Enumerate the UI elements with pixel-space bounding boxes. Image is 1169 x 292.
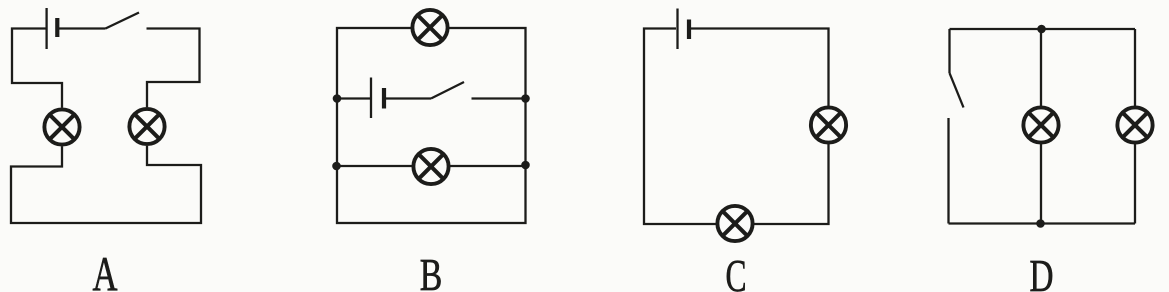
junction node dot D top — [1037, 25, 1046, 34]
lamp L5 (circuit C right edge) — [811, 107, 846, 142]
svg-text:A: A — [93, 248, 118, 292]
battery G3 (circuit C) short negative plate — [687, 20, 691, 40]
wire D: left edge lower segment below switch — [947, 118, 949, 224]
battery G1 (circuit A) long positive plate — [45, 8, 47, 49]
wire B: lower lamp branch — [337, 165, 526, 167]
label B — [420, 250, 443, 292]
junction node dot B middle-right — [521, 94, 530, 103]
wire B: switch contact to right edge — [472, 97, 526, 99]
svg-text:B: B — [420, 250, 443, 292]
wire A: switch contact to top-right corner down to lamp L2 top — [147, 29, 200, 108]
wire B: battery to switch pivot — [386, 97, 431, 99]
wire D: middle branch vertical — [1040, 29, 1042, 224]
wire B: outer rectangle loop — [337, 28, 526, 223]
wire A: battery to switch pivot — [59, 27, 106, 29]
lamp L7 (circuit D middle branch) — [1023, 107, 1058, 142]
battery G2 (circuit B) short negative plate — [382, 88, 386, 109]
lamp L8 (circuit D right edge) — [1117, 107, 1152, 142]
switch S3 (circuit D, open) blade — [950, 73, 964, 108]
wire A: bottom loop connecting lamp L1 bottom to lamp L2 bottom — [11, 146, 201, 223]
wire B: middle branch battery side — [337, 97, 370, 99]
svg-text:D: D — [1030, 251, 1054, 292]
lamp L6 (circuit C bottom edge) — [717, 206, 752, 241]
wire A: left loop from battery negative terminal to lamp L1 top — [12, 29, 62, 108]
label A — [93, 248, 118, 292]
label C — [726, 250, 747, 292]
wire D: right edge — [1134, 29, 1136, 224]
battery G2 (circuit B) long positive plate — [370, 78, 372, 119]
wire D: left edge upper segment above switch — [948, 29, 950, 73]
battery G3 (circuit C) long positive plate — [676, 9, 678, 50]
junction node dot B middle-left — [333, 94, 342, 103]
wire C: loop left side, bottom and right side — [644, 29, 829, 225]
junction node dot B lower-left — [332, 162, 341, 171]
junction node dot B lower-right — [521, 161, 530, 170]
switch S2 (circuit B, open) blade — [431, 82, 464, 99]
lamp L4 (circuit B lower branch) — [413, 149, 448, 184]
switch S1 (circuit A, open) blade — [106, 13, 140, 29]
wire D: top edge — [950, 28, 1136, 30]
svg-text:C: C — [726, 250, 747, 292]
battery G1 (circuit A) short negative plate — [55, 18, 59, 37]
lamp L1 (circuit A left) — [44, 109, 79, 144]
label D — [1030, 251, 1054, 292]
lamp L2 (circuit A right) — [129, 109, 164, 144]
wire D: bottom edge — [949, 222, 1136, 224]
junction node dot D bottom — [1036, 219, 1045, 228]
lamp L3 (circuit B top edge) — [412, 10, 447, 45]
